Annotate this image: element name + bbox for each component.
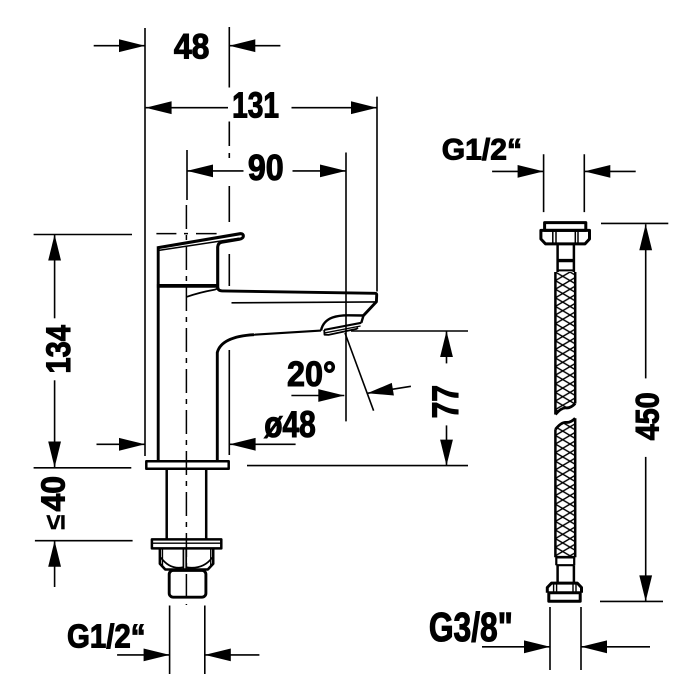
svg-text:90: 90 (248, 148, 284, 188)
svg-text:20°: 20° (287, 355, 336, 395)
svg-text:ø48: ø48 (264, 404, 316, 446)
svg-text:G3/8": G3/8" (429, 604, 513, 650)
svg-text:G1/2“: G1/2“ (442, 134, 522, 167)
svg-text:134: 134 (38, 325, 77, 374)
svg-text:131: 131 (232, 85, 279, 125)
svg-text:G1/2“: G1/2“ (67, 617, 145, 655)
svg-text:≤40: ≤40 (35, 476, 72, 530)
svg-text:450: 450 (629, 392, 666, 440)
svg-text:48: 48 (174, 27, 210, 67)
svg-text:77: 77 (425, 385, 467, 418)
